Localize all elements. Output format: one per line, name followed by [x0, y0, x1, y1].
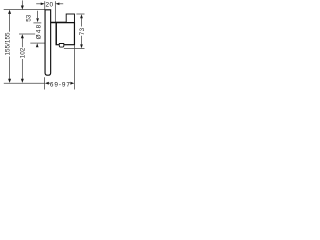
svg-text:73: 73 [79, 27, 86, 35]
svg-text:69-97: 69-97 [50, 82, 71, 89]
svg-text:53: 53 [25, 14, 32, 22]
svg-text:Ø48: Ø48 [35, 24, 42, 40]
svg-text:20: 20 [45, 2, 53, 9]
svg-text:102: 102 [19, 47, 26, 58]
svg-text:155/155: 155/155 [4, 32, 11, 56]
